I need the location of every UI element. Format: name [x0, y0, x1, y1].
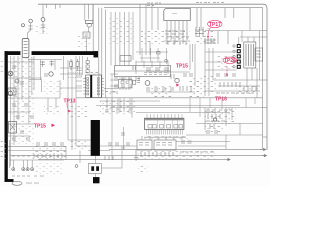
terminal near relay: [75, 165, 78, 168]
power supply horizontal rungs: [8, 62, 66, 160]
text speck clusters: [0, 18, 260, 175]
degauss black bar: [91, 120, 100, 156]
small black bar bottom: [93, 177, 100, 183]
main horizontal bus pair mid: [76, 98, 263, 113]
bottom left wires to terminals: [10, 140, 66, 168]
mid cluster small parts: [114, 68, 193, 91]
posistor Q801 circle: [41, 18, 45, 34]
fuse F801 circle: [28, 19, 33, 38]
top-left feeder wires: [43, 4, 105, 98]
flyback block: [164, 9, 191, 21]
IC801 label text: [86, 71, 101, 75]
small box right of X401: [133, 80, 136, 84]
degauss coil symbol: [85, 20, 93, 27]
frame outer border top/right: [38, 4, 267, 150]
wires mid-right linking: [136, 41, 195, 92]
relay box: [88, 164, 101, 174]
page edge ticks: [263, 31, 267, 138]
right cluster parts: [216, 74, 256, 93]
comb of wires into mid circuit: [104, 12, 133, 89]
edge info box right: [255, 48, 263, 61]
bottom-left terminals: [12, 168, 34, 186]
ground symbol bottom mid: [134, 141, 192, 161]
transistor Q803: [15, 79, 19, 83]
transistor right mid: [213, 118, 216, 121]
line filter component in shield gap: [22, 39, 29, 58]
thermal switch box: [83, 27, 90, 51]
feedback wires left of IC801: [80, 56, 113, 117]
svg-text:TP16: TP16: [215, 97, 227, 103]
big mid box U401: [115, 66, 171, 77]
switching transistor Q802: [8, 71, 13, 76]
resistor cluster top right: [195, 27, 216, 44]
CRT connector pin circles: [233, 45, 235, 68]
frame inner border right: [104, 8, 263, 150]
wire grid mid upper: [136, 48, 168, 64]
flyback pins: [167, 21, 187, 45]
small parts right of relay: [105, 143, 130, 160]
power supply vertical rails: [11, 56, 35, 166]
bottom arrows right: [228, 148, 267, 160]
parts column above IC801: [86, 57, 89, 73]
red test point labels: [34, 20, 237, 129]
snubber diode parts: [41, 61, 55, 77]
shield box thick bars: [5, 51, 99, 182]
bridge rectifier box: [9, 122, 17, 134]
jungle IC block: [145, 118, 184, 129]
svg-text:TP15: TP15: [34, 124, 46, 130]
wires right of degauss bar: [112, 117, 125, 160]
mid dense area box sub-circuit: [120, 56, 131, 62]
vertical link CRT board: [239, 31, 260, 98]
degauss return wire: [92, 4, 94, 51]
primary side wires: [28, 57, 62, 95]
small part in grid: [157, 51, 168, 62]
bus drop parts left of IC: [105, 98, 132, 112]
right mid parts under TP16: [206, 110, 232, 133]
small caps cluster left: [12, 66, 34, 140]
vertical drops from mid bus: [120, 98, 255, 118]
transistor Q302: [175, 78, 179, 82]
svg-text:TP13: TP13: [64, 99, 76, 105]
feedback chain parts: [68, 59, 82, 77]
mid rail wires to connector: [60, 56, 82, 150]
right mid wires: [186, 108, 263, 150]
bottom bus wires: [10, 150, 266, 160]
right top wires: [205, 31, 263, 45]
bottom mid relay wires: [68, 140, 137, 177]
IC801 SMPS controller block: [83, 75, 104, 98]
regulator transistor Q805: [8, 91, 12, 95]
small IC X401: [118, 77, 132, 90]
thick bars repaint on top: [5, 51, 100, 183]
jungle IC pins: [147, 114, 183, 135]
degauss coil loop: [85, 4, 93, 20]
sub board box bottom mid 1: [137, 140, 152, 150]
connector under jungle IC wires: [142, 136, 230, 146]
sub board box bottom mid 2: [154, 140, 176, 150]
thermistor circle: [22, 24, 25, 27]
vertical wire mid: [63, 56, 65, 80]
bottom left caps cluster: [12, 143, 64, 158]
svg-text:TP15: TP15: [176, 64, 188, 70]
top bus tick labels: [147, 3, 224, 6]
photocoupler box: [8, 88, 16, 95]
speaker ellipse labels: [12, 176, 44, 183]
transistor Q301: [145, 81, 150, 86]
CRT socket connector column: [237, 44, 241, 69]
flyback feeder verticals: [140, 4, 250, 55]
right area rails: [205, 44, 263, 96]
bottom parts row mid: [141, 152, 214, 156]
CRT neck board box: [244, 42, 256, 68]
connector block pins left: [76, 71, 118, 93]
switching transistor Q801: [49, 72, 53, 76]
HV rectifier row under flyback: [164, 31, 190, 45]
